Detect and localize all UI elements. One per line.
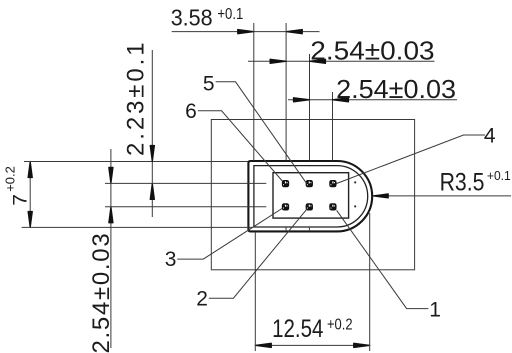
svg-text:4: 4 xyxy=(484,125,496,148)
dim 3.58 arrow right xyxy=(286,30,302,34)
centerline tick col1 bottom xyxy=(285,227,287,230)
dim 2.54 second arrow right xyxy=(333,98,349,102)
dim 3.58 arrow left xyxy=(238,30,254,34)
extension line shell bottom left xyxy=(22,226,253,228)
dim 7 line xyxy=(29,162,31,228)
svg-text:7: 7 xyxy=(10,194,31,206)
dim 7 arrow down xyxy=(28,212,32,228)
component body outline rectangle xyxy=(211,120,414,270)
dim 12.54 line xyxy=(255,344,369,346)
svg-text:+0.1: +0.1 xyxy=(487,168,511,182)
extension line pad row1 xyxy=(105,182,266,184)
dim 12.54 arrow left xyxy=(255,343,271,347)
extension line pin col1 xyxy=(285,23,287,161)
pad row2 col2 xyxy=(306,203,313,210)
svg-text:3.58: 3.58 xyxy=(171,5,213,31)
dim 2.54 left arrow down xyxy=(109,167,113,183)
extension line 12.54 right xyxy=(369,213,371,351)
dim 2.54 second arrow left xyxy=(294,98,310,102)
svg-text:2.54±0.03: 2.54±0.03 xyxy=(336,75,456,104)
pad row2 col1 xyxy=(282,203,289,210)
pad row1 col1 xyxy=(282,180,289,187)
svg-text:6: 6 xyxy=(185,100,197,123)
shell outer contour (D-shape) xyxy=(248,161,372,231)
extension line pin col3 xyxy=(332,92,334,161)
center mark dot row2 xyxy=(354,205,356,207)
pad row1 col2 xyxy=(306,180,313,187)
svg-text:3: 3 xyxy=(165,248,177,271)
svg-text:R3.5: R3.5 xyxy=(440,168,485,196)
radius R3.5 arrow xyxy=(373,194,388,198)
svg-text:+0.2: +0.2 xyxy=(2,166,17,192)
dim 2.23 line xyxy=(151,50,153,217)
leader 3 xyxy=(177,209,282,260)
svg-text:+0.2: +0.2 xyxy=(327,316,353,334)
dim 2.54 first arrow right xyxy=(310,59,326,63)
svg-text:12.54: 12.54 xyxy=(272,314,324,342)
svg-text:1: 1 xyxy=(429,298,441,321)
extension line shell top left xyxy=(24,161,248,163)
extension line pad row2 xyxy=(105,206,266,208)
svg-text:5: 5 xyxy=(203,72,215,95)
dim 2.54 left arrow up xyxy=(109,207,113,223)
dim 2.54 second line xyxy=(288,99,457,101)
dim 2.54 first arrow left xyxy=(270,59,286,63)
extension line pin col2 xyxy=(309,54,311,161)
leader 4 xyxy=(337,135,485,184)
dim 2.54 left vertical line xyxy=(110,149,112,348)
dim 3.58 line xyxy=(172,31,320,33)
center mark dot row1 xyxy=(354,181,356,183)
leader 5 xyxy=(216,82,307,184)
radius R3.5 leader line xyxy=(374,195,511,197)
insulator rectangle xyxy=(273,173,349,218)
svg-text:2.54±0.03: 2.54±0.03 xyxy=(310,37,434,66)
dim 7 arrow up xyxy=(28,162,32,178)
svg-text:2.23±0.1: 2.23±0.1 xyxy=(123,40,150,156)
leader 6 xyxy=(198,111,282,181)
svg-text:2.54±0.03: 2.54±0.03 xyxy=(88,232,115,353)
svg-text:2: 2 xyxy=(196,288,208,311)
leader 1 xyxy=(337,210,429,308)
pad row1 col3 xyxy=(329,180,336,187)
dim 2.54 first line xyxy=(248,60,435,62)
shell inner contour xyxy=(254,166,368,227)
leader 2 xyxy=(209,209,307,298)
centerline tick col2 bottom xyxy=(308,227,310,230)
extension line shell inner left top xyxy=(253,23,255,161)
dim 2.23 arrow down xyxy=(150,146,154,162)
dim 7 text xyxy=(2,166,31,206)
dim 12.54 arrow right xyxy=(354,343,370,347)
dim 2.23 arrow up xyxy=(150,183,154,199)
pad row2 col3 xyxy=(329,203,336,210)
svg-text:+0.1: +0.1 xyxy=(217,6,243,23)
extension line 12.54 left xyxy=(254,232,256,351)
